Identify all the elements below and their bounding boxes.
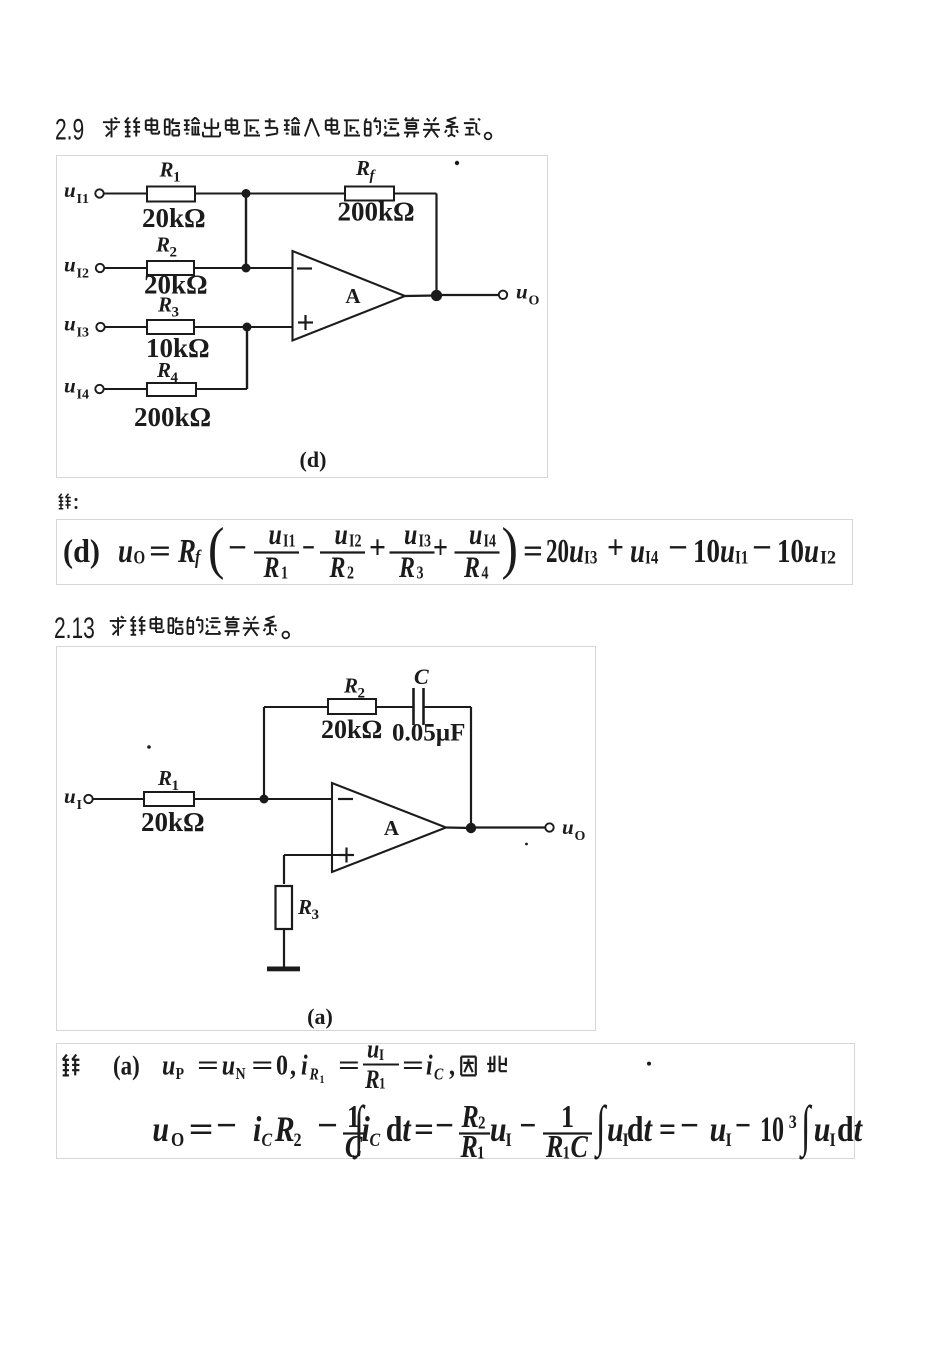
svg-text:(: ( [208, 516, 224, 581]
svg-text:∫: ∫ [799, 1096, 813, 1160]
svg-text:0: 0 [276, 1048, 288, 1081]
svg-text:u: u [404, 517, 417, 550]
svg-text:): ) [502, 516, 518, 581]
svg-text:=: = [523, 532, 543, 570]
svg-text:u: u [64, 312, 76, 336]
svg-text:10: 10 [777, 532, 804, 570]
svg-text:I3: I3 [584, 547, 597, 568]
svg-text:f: f [195, 546, 202, 568]
svg-text:=: = [189, 1109, 214, 1149]
svg-text:(a): (a) [307, 1004, 333, 1029]
svg-text:2.9: 2.9 [55, 114, 84, 146]
svg-text:u: u [516, 280, 528, 304]
svg-text:=: = [338, 1048, 360, 1081]
svg-text:200kΩ: 200kΩ [338, 197, 415, 227]
svg-text:dt: dt [627, 1109, 654, 1149]
svg-text:u: u [710, 1109, 727, 1149]
svg-text:−: − [228, 529, 247, 567]
svg-text:R: R [355, 156, 370, 180]
svg-text:R: R [274, 1109, 295, 1149]
svg-text:u: u [367, 1035, 379, 1064]
svg-text:I2: I2 [349, 532, 362, 551]
svg-text:I4: I4 [77, 388, 89, 403]
svg-text:I3: I3 [77, 326, 89, 341]
svg-text:u: u [562, 815, 574, 839]
svg-text:4: 4 [482, 564, 489, 583]
svg-text:u: u [64, 784, 76, 808]
svg-text:20kΩ: 20kΩ [144, 270, 208, 300]
svg-text:1: 1 [563, 1142, 570, 1163]
svg-text:20: 20 [546, 532, 569, 570]
svg-text:=: = [659, 1109, 676, 1149]
svg-text:O: O [171, 1129, 184, 1152]
svg-text:20kΩ: 20kΩ [321, 715, 382, 744]
svg-text:1: 1 [281, 564, 288, 583]
svg-text:u: u [64, 374, 76, 398]
svg-text:u: u [64, 253, 76, 277]
svg-text:dt: dt [386, 1109, 413, 1149]
svg-text:u: u [152, 1109, 169, 1149]
svg-text:I2: I2 [77, 267, 89, 282]
svg-text:(a): (a) [113, 1051, 140, 1081]
svg-text:I: I [506, 1129, 512, 1151]
svg-text:−: − [752, 529, 772, 567]
svg-text:2: 2 [478, 1112, 485, 1133]
svg-text:(d): (d) [63, 534, 100, 569]
svg-text:10: 10 [760, 1109, 784, 1149]
svg-text:1: 1 [172, 778, 180, 794]
svg-text:1: 1 [379, 1075, 385, 1092]
svg-text:u: u [630, 532, 645, 570]
svg-text:R: R [398, 550, 415, 583]
svg-text:C: C [434, 1065, 444, 1083]
svg-text:u: u [269, 517, 282, 550]
svg-text:R: R [297, 895, 312, 919]
svg-text:2: 2 [347, 564, 354, 583]
svg-text:I2: I2 [820, 547, 836, 568]
svg-text:u: u [222, 1048, 235, 1081]
svg-text:R: R [157, 293, 172, 317]
svg-text:−: − [216, 1105, 237, 1145]
svg-text:u: u [469, 517, 482, 550]
svg-text:C: C [414, 664, 429, 689]
svg-text:R: R [463, 550, 480, 583]
svg-text:2: 2 [294, 1129, 302, 1151]
svg-text:=: = [414, 1109, 434, 1149]
svg-text:R: R [157, 766, 172, 790]
svg-text:P: P [176, 1065, 185, 1083]
svg-text:R: R [545, 1130, 563, 1165]
svg-text:1: 1 [173, 170, 181, 186]
svg-text:(d): (d) [300, 447, 327, 472]
svg-text:R: R [329, 550, 346, 583]
svg-text:−: − [435, 1105, 454, 1145]
svg-text:I1: I1 [77, 192, 89, 207]
svg-text:O: O [575, 829, 586, 844]
svg-text:−: − [680, 1105, 699, 1145]
svg-text:R: R [343, 674, 358, 698]
svg-text:1: 1 [320, 1073, 325, 1086]
svg-text:I4: I4 [484, 532, 497, 551]
svg-text:=: = [402, 1048, 424, 1081]
svg-text:u: u [335, 517, 348, 550]
svg-text:20kΩ: 20kΩ [142, 203, 206, 233]
svg-text:−: − [317, 1105, 338, 1145]
svg-text:A: A [384, 816, 400, 840]
svg-text:u: u [490, 1109, 507, 1149]
svg-text:u: u [814, 1109, 831, 1149]
svg-text:I: I [830, 1129, 836, 1151]
svg-text:f: f [370, 168, 377, 184]
svg-text:O: O [529, 294, 540, 309]
svg-text:,: , [449, 1048, 455, 1081]
svg-text:10: 10 [693, 532, 720, 570]
svg-text:A: A [345, 284, 361, 308]
svg-text:R: R [309, 1065, 319, 1083]
svg-text:10kΩ: 10kΩ [146, 333, 210, 363]
svg-text:I1: I1 [735, 547, 748, 568]
svg-text:u: u [162, 1048, 175, 1081]
svg-text:200kΩ: 200kΩ [134, 402, 211, 432]
svg-text:I4: I4 [645, 547, 659, 568]
svg-text:3: 3 [172, 305, 180, 321]
svg-text:R: R [364, 1065, 380, 1094]
svg-text:3: 3 [789, 1111, 797, 1133]
svg-text:u: u [64, 178, 76, 202]
svg-text:−: − [519, 1105, 536, 1145]
svg-text:−: − [668, 529, 688, 567]
svg-text:4: 4 [171, 370, 179, 386]
svg-text:dt: dt [837, 1109, 864, 1149]
svg-text:+: + [433, 529, 448, 567]
svg-text:∫: ∫ [594, 1096, 608, 1160]
svg-text:+: + [607, 529, 624, 567]
svg-text:1: 1 [477, 1142, 484, 1163]
svg-text:u: u [118, 532, 133, 570]
svg-text:N: N [236, 1065, 246, 1083]
svg-text:u: u [720, 532, 735, 570]
svg-text:3: 3 [417, 564, 424, 583]
svg-text:i: i [426, 1048, 433, 1081]
svg-text:O: O [134, 547, 146, 568]
svg-text:=: = [149, 532, 171, 570]
svg-text:0.05µF: 0.05µF [392, 720, 465, 747]
svg-text:2: 2 [358, 686, 366, 702]
svg-text:−: − [302, 529, 315, 567]
svg-text:C: C [370, 1129, 381, 1151]
svg-text:i: i [301, 1048, 308, 1081]
svg-text:I1: I1 [283, 532, 296, 551]
svg-text:R: R [460, 1130, 478, 1165]
svg-text:R: R [177, 532, 196, 570]
svg-text:I: I [379, 1047, 384, 1064]
svg-text:20kΩ: 20kΩ [141, 807, 205, 837]
svg-text:R: R [155, 233, 170, 257]
svg-text:2: 2 [170, 245, 178, 261]
svg-text:u: u [569, 532, 584, 570]
svg-text:=: = [251, 1048, 273, 1081]
svg-text:R: R [159, 158, 174, 182]
svg-text:C: C [571, 1130, 589, 1165]
svg-text:=: = [197, 1048, 219, 1081]
svg-text:I: I [77, 798, 82, 813]
svg-text:3: 3 [312, 907, 320, 923]
svg-text:R: R [263, 550, 280, 583]
svg-text:I: I [726, 1129, 732, 1151]
svg-text:2.13: 2.13 [54, 613, 95, 644]
svg-text:+: + [369, 529, 386, 567]
svg-text:C: C [262, 1129, 273, 1151]
svg-text:u: u [804, 532, 819, 570]
svg-text:R: R [156, 358, 171, 382]
svg-text:u: u [607, 1109, 624, 1149]
svg-text:I3: I3 [419, 532, 432, 551]
svg-text:−: − [735, 1105, 751, 1145]
svg-text:,: , [290, 1048, 296, 1081]
